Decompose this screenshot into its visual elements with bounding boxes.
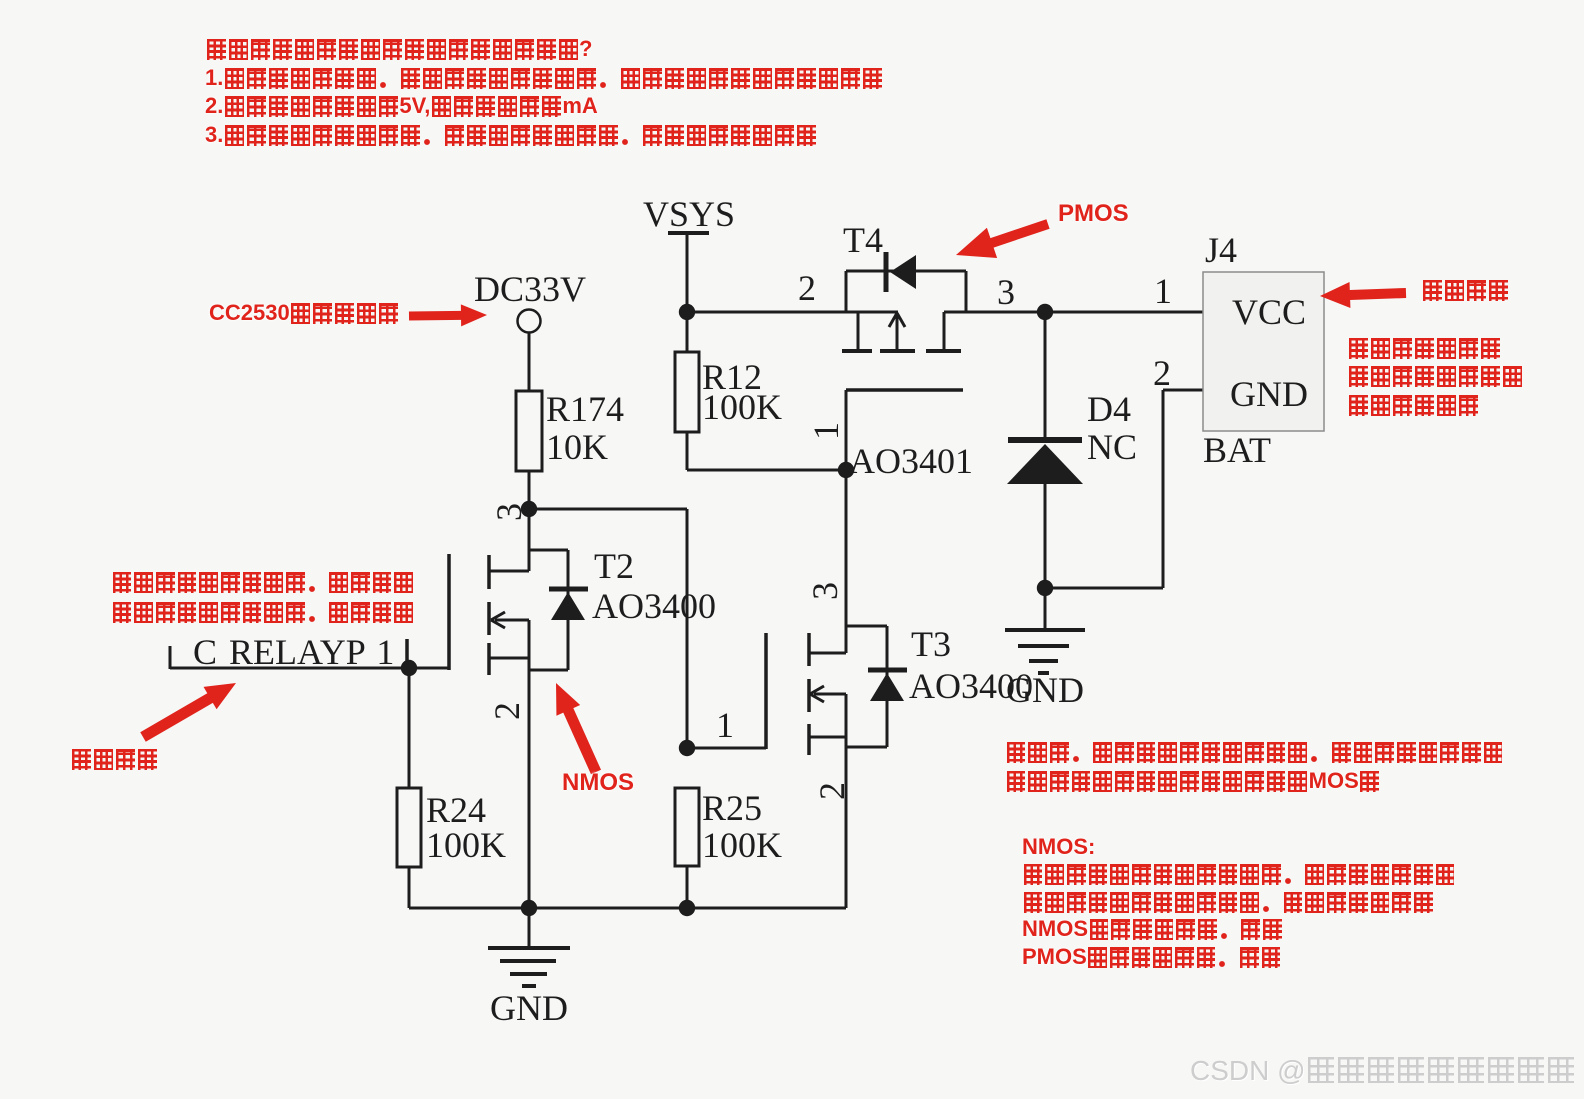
net wire C_RELAYP_1 [170, 646, 449, 669]
net port DC33V [474, 269, 586, 391]
note top line 4 [205, 124, 817, 146]
resistor R12 [675, 312, 699, 470]
svg-text:BAT: BAT [1203, 430, 1271, 470]
red arrow to control interface wire [140, 683, 236, 742]
transistor T4 PMOS AO3401 [842, 252, 966, 470]
diode D4 [1007, 312, 1083, 588]
note PMOS pointer line 1 [1058, 202, 1129, 226]
junction dot R25 top / T3 gate [679, 740, 695, 756]
svg-text:R24: R24 [426, 790, 486, 830]
svg-text:R174: R174 [546, 389, 624, 429]
note nmos rules line 1 [1022, 836, 1095, 858]
pin 1 tick of T2 gate [405, 639, 409, 667]
svg-text:1: 1 [806, 422, 846, 440]
svg-text:T4: T4 [843, 220, 883, 260]
note requirement line 1 [1005, 741, 1504, 763]
svg-text:1: 1 [1154, 271, 1172, 311]
svg-text:NC: NC [1087, 427, 1137, 467]
junction dot T2 source / GND [521, 900, 537, 916]
note cc2530 line 1 [209, 302, 400, 324]
svg-text:R25: R25 [702, 788, 762, 828]
svg-text:10K: 10K [546, 427, 608, 467]
note nmos rules line 4 [1022, 918, 1283, 940]
note control low/high line 1 [111, 571, 415, 593]
svg-text:3: 3 [997, 272, 1015, 312]
transistor T2 NMOS AO3400 [449, 509, 588, 908]
watermark [1190, 1055, 1576, 1087]
wire J4 pin 2 to ground node [1045, 390, 1203, 588]
note NMOS pointer line 1 [562, 771, 634, 795]
svg-text:3: 3 [489, 503, 529, 521]
wire node 3 to R25/T3-gate column [529, 508, 687, 511]
note nmos rules line 5 [1022, 946, 1282, 968]
transistor T3 NMOS AO3400 [766, 626, 907, 908]
svg-text:GND: GND [1230, 374, 1308, 414]
svg-text:T2: T2 [594, 546, 634, 586]
note control port line 1 [70, 748, 158, 770]
note fan logic line 3 [1347, 394, 1479, 416]
resistor R25 [675, 788, 699, 908]
svg-text:100K: 100K [702, 825, 782, 865]
wire T4 pin 3 to J4 VCC [944, 311, 1203, 314]
svg-text:T3: T3 [911, 624, 951, 664]
junction dot T4 gate / T3 drain [838, 462, 854, 478]
svg-text:2: 2 [487, 702, 527, 720]
svg-text:AO3400: AO3400 [592, 586, 716, 626]
junction dot D4 anode / J4 pin2 / GND [1037, 580, 1053, 596]
note fan port line 1 [1421, 279, 1509, 301]
svg-text:2: 2 [1153, 353, 1171, 393]
ground symbol right [1005, 588, 1085, 673]
note control low/high line 2 [111, 601, 415, 623]
svg-text:AO3401: AO3401 [849, 441, 973, 481]
note nmos rules line 2 [1022, 863, 1456, 885]
svg-text:1: 1 [716, 705, 734, 745]
red arrow to T2 NMOS [556, 683, 601, 774]
note top line 1 [205, 38, 592, 60]
svg-text:100K: 100K [426, 825, 506, 865]
resistor R174 [516, 391, 542, 509]
red arrow to T4 PMOS [956, 219, 1050, 258]
note top line 3 [205, 95, 598, 117]
red arrow to fan connector J4 [1320, 282, 1406, 308]
note top line 2 [205, 67, 883, 89]
note requirement line 2 [1005, 770, 1380, 792]
svg-text:J4: J4 [1205, 230, 1237, 270]
svg-text:100K: 100K [702, 387, 782, 427]
node 3 junction dot (R174/T2 drain) [521, 501, 537, 517]
svg-text:GND: GND [490, 988, 568, 1028]
junction dot T4 drain / D4 / J4 pin1 net [1037, 304, 1053, 320]
svg-text:C RELAYP 1: C RELAYP 1 [193, 632, 394, 672]
ground rail wire [409, 907, 846, 910]
svg-text:GND: GND [1006, 670, 1084, 710]
svg-text:VSYS: VSYS [643, 194, 735, 234]
svg-text:2: 2 [812, 782, 852, 800]
junction dot R25 bottom [679, 900, 695, 916]
svg-text:DC33V: DC33V [474, 269, 586, 309]
red arrow to DC33V [409, 304, 487, 326]
svg-text:D4: D4 [1087, 389, 1131, 429]
wire T3 gate [687, 747, 766, 750]
wire R12 bottom to T4 gate node [687, 469, 846, 472]
connector J4 body [1203, 272, 1324, 431]
svg-text:3: 3 [805, 582, 845, 600]
power symbol VSYS [643, 194, 735, 312]
svg-text:2: 2 [798, 268, 816, 308]
note nmos rules line 3 [1022, 891, 1434, 913]
node A junction dot (VSYS/R12/T4 source) [679, 304, 695, 320]
resistor R24 [397, 668, 421, 908]
wire node A to T4 pin 2 [687, 311, 898, 314]
note fan logic line 1 [1347, 337, 1501, 359]
ground symbol left [488, 908, 570, 986]
note fan logic line 2 [1347, 365, 1523, 387]
svg-text:VCC: VCC [1232, 292, 1306, 332]
wire T4 gate node down to T3 drain [845, 470, 848, 653]
junction dot C_RELAYP / R24 [401, 660, 417, 676]
